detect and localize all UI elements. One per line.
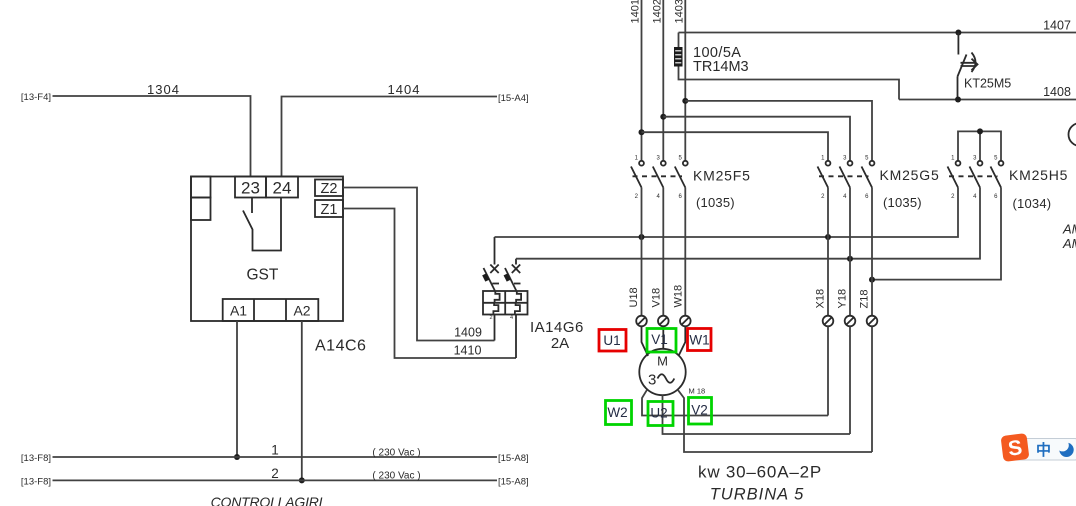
box U2 (green) bbox=[648, 402, 673, 426]
sogou S logo bbox=[1001, 433, 1030, 462]
svg-text:[15-A8]: [15-A8] bbox=[498, 477, 529, 488]
svg-text:1401: 1401 bbox=[630, 0, 642, 24]
svg-text:(1034): (1034) bbox=[1013, 196, 1052, 211]
motor M1 circle bbox=[639, 349, 685, 395]
junction dot KT25M5 bottom bbox=[955, 97, 961, 103]
junction dot H5 bar bbox=[977, 128, 983, 134]
svg-text:1409: 1409 bbox=[454, 326, 482, 340]
KT25M5 lower wire bbox=[957, 77, 959, 100]
svg-text:[13-F4]: [13-F4] bbox=[21, 92, 51, 103]
svg-text:W18: W18 bbox=[673, 285, 685, 308]
KM25F5 pole 2 contact bbox=[661, 161, 666, 166]
svg-text:V1: V1 bbox=[651, 332, 668, 347]
relay GST top-left small box 2 bbox=[191, 198, 211, 221]
svg-text:IA14G6: IA14G6 bbox=[530, 319, 584, 336]
KT25M5 arrow bbox=[961, 59, 978, 70]
svg-text:1402: 1402 bbox=[652, 0, 664, 24]
svg-text:Z18: Z18 bbox=[859, 290, 871, 309]
breaker pole 1 X mark bbox=[490, 265, 498, 274]
svg-text:M: M bbox=[657, 354, 668, 369]
svg-text:CONTROLLAGIRI: CONTROLLAGIRI bbox=[211, 494, 323, 506]
KM25H5 top bar bbox=[958, 131, 1001, 160]
wire 1410 (Z1 to breaker pin4) bbox=[343, 209, 516, 359]
terminal 24 box bbox=[266, 177, 298, 198]
svg-text:S: S bbox=[1007, 436, 1024, 461]
svg-text:V2: V2 bbox=[691, 403, 708, 418]
junction dot A2/rail2 bbox=[299, 477, 305, 483]
svg-text:2: 2 bbox=[271, 466, 279, 481]
svg-text:4: 4 bbox=[510, 315, 513, 321]
svg-text:V18: V18 bbox=[651, 288, 663, 308]
svg-text:TR14M3: TR14M3 bbox=[693, 59, 749, 75]
terminal V18 bbox=[658, 316, 669, 327]
svg-text:24: 24 bbox=[273, 179, 292, 198]
junction dot rowB-Y18 bbox=[847, 256, 853, 262]
wire row A (breaker to U18/X18/H5 pole1) bbox=[495, 188, 959, 238]
motor lead V bbox=[662, 327, 664, 350]
motor lead W bbox=[679, 327, 686, 357]
wire 1403 bbox=[684, 0, 686, 160]
svg-text:[13-F8]: [13-F8] bbox=[21, 477, 51, 488]
svg-text:1408: 1408 bbox=[1043, 85, 1071, 99]
motor lead U bbox=[642, 327, 649, 357]
wire Y18 lower bbox=[849, 327, 851, 435]
wire Z18 bbox=[871, 188, 873, 316]
svg-text:中: 中 bbox=[1036, 441, 1051, 459]
toolbar strip bbox=[1008, 439, 1076, 461]
terminal Y18 bbox=[845, 316, 856, 327]
KM25G5 linkage dashes bbox=[819, 175, 869, 177]
relay GST top-left small box 1 bbox=[191, 177, 211, 198]
junction dot rowA-U18 bbox=[639, 234, 645, 240]
wire X18 lower bbox=[827, 327, 829, 416]
svg-text:1410: 1410 bbox=[454, 344, 482, 358]
terminal Z18 bbox=[867, 316, 878, 327]
svg-text:2A: 2A bbox=[551, 335, 569, 352]
svg-text:(1035): (1035) bbox=[883, 195, 922, 210]
junction dot rowC-Z18 bbox=[869, 277, 875, 283]
svg-text:Y18: Y18 bbox=[837, 289, 849, 309]
KM25G5 pole 1 contact bbox=[826, 161, 831, 166]
svg-text:1304: 1304 bbox=[147, 82, 180, 97]
wire feed pole1 G5 bbox=[642, 132, 829, 160]
svg-text:1407: 1407 bbox=[1043, 19, 1071, 33]
svg-text:1404: 1404 bbox=[388, 82, 421, 97]
svg-text:Z2: Z2 bbox=[321, 181, 338, 197]
breaker pole 2 upper wire bbox=[515, 259, 517, 265]
terminal row A1/A2 bbox=[223, 299, 319, 321]
box W2 (green) bbox=[606, 401, 632, 425]
wire Z18 lower bbox=[871, 327, 873, 453]
svg-text:3: 3 bbox=[648, 372, 656, 389]
KM25G5 pole 3 contact bbox=[870, 161, 875, 166]
wire 1408 bbox=[899, 99, 1076, 101]
wire feed pole2 G5 bbox=[663, 117, 850, 161]
KT25M5 upper wire bbox=[957, 33, 959, 55]
box V1 (green) bbox=[647, 329, 676, 353]
breaker bottom stubs bbox=[495, 315, 517, 359]
KM25H5 pole 3 contact bbox=[999, 161, 1004, 166]
junction dot rowA-X18 bbox=[825, 234, 831, 240]
KM25H5 pole 1 contact bbox=[956, 161, 961, 166]
wire V18 bbox=[662, 188, 664, 316]
KT25M5 arc bbox=[972, 53, 976, 73]
terminal 23 box bbox=[235, 177, 266, 198]
svg-text:2: 2 bbox=[490, 315, 493, 321]
junction dot 1402 feed bbox=[660, 114, 666, 120]
terminal Z1 box bbox=[315, 200, 343, 217]
svg-text:[15-A4]: [15-A4] bbox=[498, 93, 529, 104]
wire rail 1 bbox=[53, 456, 498, 458]
wire U18 bbox=[641, 188, 643, 316]
wire W18 bbox=[684, 188, 686, 316]
svg-text:A14C6: A14C6 bbox=[315, 338, 366, 355]
svg-text:( 230 Vac ): ( 230 Vac ) bbox=[372, 471, 420, 482]
svg-text:KT25M5: KT25M5 bbox=[964, 77, 1011, 91]
wire 1401 bbox=[641, 0, 643, 160]
wire 1409 (Z2 to breaker pin2) bbox=[343, 188, 495, 341]
svg-text:KM25H5: KM25H5 bbox=[1009, 167, 1068, 183]
wire Y18 bbox=[849, 188, 851, 316]
svg-text:(1035): (1035) bbox=[696, 195, 735, 210]
svg-text:( 230 Vac ): ( 230 Vac ) bbox=[372, 448, 420, 459]
junction dot KT25M5 top bbox=[955, 30, 961, 36]
wire 1407 bbox=[679, 32, 1076, 34]
contact switch inside GST bbox=[251, 198, 253, 214]
wire 1304 bbox=[53, 96, 251, 177]
svg-text:A1: A1 bbox=[230, 303, 247, 319]
svg-text:KM25F5: KM25F5 bbox=[693, 168, 751, 184]
svg-text:U18: U18 bbox=[628, 287, 640, 307]
KM25H5 linkage dashes bbox=[949, 175, 998, 177]
breaker pole 2 X mark bbox=[512, 265, 520, 274]
junction dot 1403 feed bbox=[682, 98, 688, 104]
breaker pole 1 upper wire bbox=[494, 237, 496, 265]
KM25G5 pole 2 contact bbox=[848, 161, 853, 166]
wire X18 bbox=[827, 188, 829, 316]
terminal Z2 box bbox=[315, 180, 343, 197]
IME moon icon bbox=[1059, 443, 1073, 457]
wire A2 to rail 2 bbox=[301, 321, 303, 480]
KM25F5 pole 1 contact bbox=[639, 161, 644, 166]
svg-text:1403: 1403 bbox=[674, 0, 686, 24]
motor lead V2 out bbox=[678, 390, 872, 452]
breaker thermal block bbox=[483, 291, 528, 315]
box V2 (green) bbox=[689, 398, 712, 425]
wire rail 2 bbox=[53, 479, 498, 481]
svg-text:GST: GST bbox=[247, 267, 279, 284]
box W1 (red) bbox=[688, 329, 712, 351]
svg-text:M 18: M 18 bbox=[689, 387, 706, 396]
CT body (hatched) bbox=[674, 47, 683, 67]
wire row B (breaker to Y18/H5 pole2) bbox=[516, 188, 980, 259]
wire A1 to rail 1 bbox=[236, 321, 238, 457]
svg-text:AMP: AMP bbox=[1062, 222, 1076, 237]
motor lead W2 out bbox=[642, 390, 828, 416]
svg-text:Z1: Z1 bbox=[321, 202, 338, 218]
wire 1404 bbox=[282, 97, 498, 177]
svg-text:kw 30–60A–2P: kw 30–60A–2P bbox=[698, 463, 822, 482]
svg-text:W1: W1 bbox=[689, 333, 709, 348]
motor lead U2 out bbox=[663, 395, 851, 434]
wire 1402 bbox=[662, 0, 664, 160]
svg-text:[13-F8]: [13-F8] bbox=[21, 453, 51, 464]
svg-text:U1: U1 bbox=[603, 333, 620, 348]
box U1 (red) bbox=[599, 330, 626, 352]
KT25M5 blade bbox=[958, 55, 967, 77]
svg-text:[15-A8]: [15-A8] bbox=[498, 453, 529, 464]
junction dot A1/rail1 bbox=[234, 454, 240, 460]
svg-text:U2: U2 bbox=[650, 406, 667, 421]
breaker pole 2 blade bbox=[505, 268, 516, 291]
KM25F5 linkage dashes bbox=[633, 175, 683, 177]
terminal X18 bbox=[823, 316, 834, 327]
svg-text:AMP: AMP bbox=[1062, 236, 1076, 251]
KM25F5 pole 3 contact bbox=[683, 161, 688, 166]
wire feed pole3 G5 bbox=[685, 101, 872, 160]
breaker pole 1 blade bbox=[484, 268, 495, 291]
KM25H5 pole 2 contact bbox=[978, 161, 983, 166]
svg-text:23: 23 bbox=[241, 179, 260, 198]
svg-text:X18: X18 bbox=[815, 289, 827, 309]
svg-text:A2: A2 bbox=[293, 303, 310, 319]
junction dot 1401 feed bbox=[639, 129, 645, 135]
svg-text:KM25G5: KM25G5 bbox=[880, 167, 940, 183]
svg-text:TURBINA 5: TURBINA 5 bbox=[710, 486, 805, 504]
wire row C (Z18 to H5 pole3) bbox=[872, 188, 1001, 280]
svg-text:1: 1 bbox=[271, 443, 279, 458]
terminal W18 bbox=[680, 316, 691, 327]
CT top stub bbox=[678, 33, 680, 48]
relay GST body bbox=[191, 177, 343, 322]
ammeter circle (cut at edge) bbox=[1069, 123, 1076, 146]
svg-text:W2: W2 bbox=[607, 405, 627, 420]
terminal U18 bbox=[636, 316, 647, 327]
CT bottom stub bbox=[679, 67, 900, 100]
